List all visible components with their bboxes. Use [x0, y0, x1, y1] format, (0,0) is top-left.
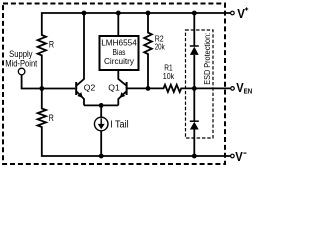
svg-text:R: R — [49, 40, 54, 50]
svg-text:R: R — [49, 113, 54, 123]
svg-text:V: V — [235, 149, 243, 164]
svg-text:Q1: Q1 — [108, 82, 120, 92]
svg-text:V: V — [237, 6, 245, 21]
svg-text:ESD Protection:: ESD Protection: — [202, 33, 212, 85]
svg-text:20k: 20k — [155, 41, 166, 51]
svg-text:I Tail: I Tail — [110, 120, 128, 131]
svg-text:Mid-Point: Mid-Point — [5, 58, 38, 68]
svg-text:Circuitry: Circuitry — [104, 56, 135, 66]
svg-text:EN: EN — [244, 86, 253, 95]
svg-text:10k: 10k — [163, 71, 175, 81]
svg-text:Q2: Q2 — [84, 82, 96, 92]
